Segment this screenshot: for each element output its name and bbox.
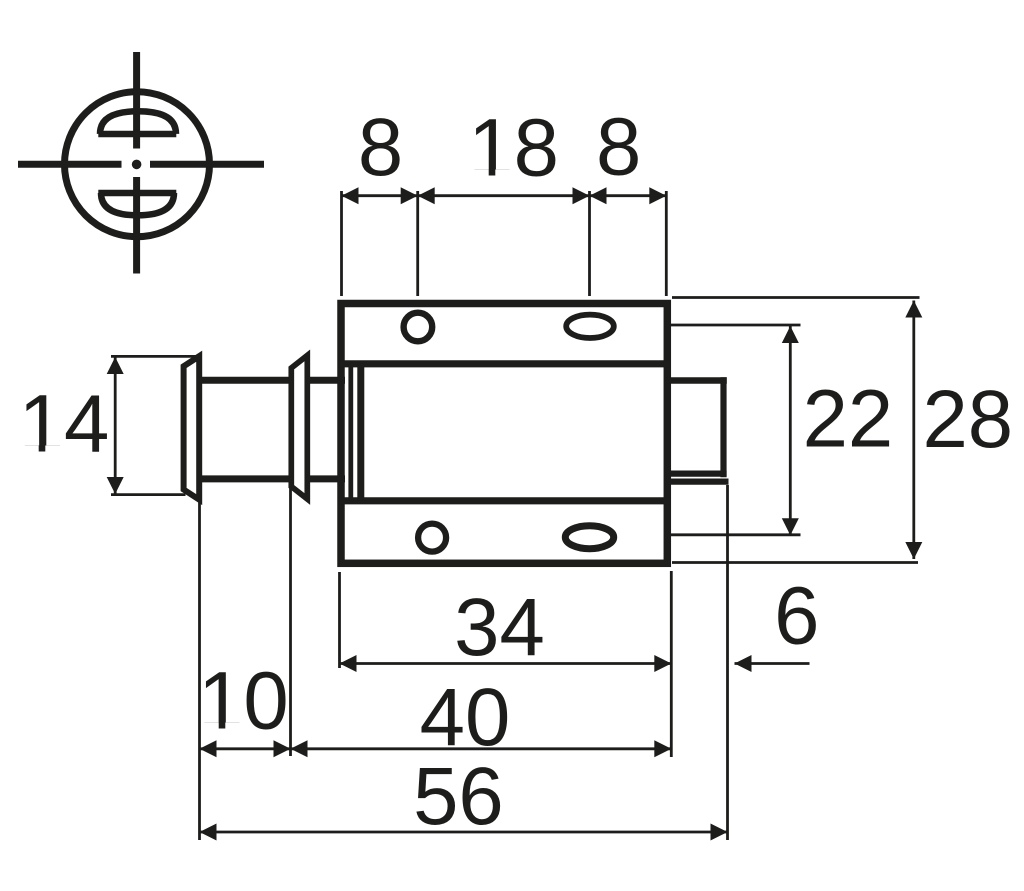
svg-text:10: 10 (198, 656, 289, 747)
svg-text:34: 34 (454, 582, 545, 673)
svg-text:14: 14 (19, 379, 110, 470)
svg-text:18: 18 (468, 103, 559, 194)
svg-text:8: 8 (596, 102, 641, 193)
svg-text:28: 28 (922, 374, 1013, 465)
svg-text:22: 22 (803, 374, 894, 465)
svg-text:8: 8 (358, 102, 403, 193)
svg-text:56: 56 (413, 751, 504, 842)
svg-text:6: 6 (774, 571, 819, 662)
svg-text:40: 40 (420, 672, 511, 763)
